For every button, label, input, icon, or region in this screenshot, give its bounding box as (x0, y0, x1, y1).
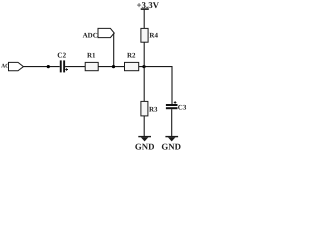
resistor R4 (141, 28, 159, 42)
wire R3 to ground (143, 116, 145, 136)
power +3.3V (137, 0, 160, 10)
ground GND right (161, 137, 181, 152)
capacitor C3 (166, 101, 187, 111)
wire junction down to R3 (143, 67, 145, 102)
svg-text:C2: C2 (57, 50, 66, 59)
wire R2 to corner and down to C3 (139, 67, 172, 104)
svg-text:R4: R4 (149, 32, 158, 40)
svg-text:ADC: ADC (83, 31, 98, 39)
wire R4 to junction (143, 42, 145, 66)
svg-text:R1: R1 (87, 51, 96, 59)
ground GND left (135, 137, 155, 152)
wire power bar to R4 (143, 10, 145, 29)
resistor R2 (125, 51, 139, 70)
svg-text:R2: R2 (127, 51, 136, 59)
wire R1 to R2 (98, 66, 124, 68)
svg-text:C3: C3 (178, 103, 187, 111)
svg-text:GND: GND (135, 142, 155, 152)
wire ADC down to junction (113, 33, 116, 67)
port AC (1, 62, 23, 70)
node junction dot ADC (112, 65, 115, 68)
wire C2 to R1 (65, 66, 85, 68)
node junction dot left (47, 65, 50, 68)
svg-text:AC: AC (1, 63, 9, 69)
svg-text:R3: R3 (149, 106, 158, 114)
wire C3 to ground (171, 109, 173, 136)
capacitor C2 (57, 50, 68, 72)
resistor R3 (141, 101, 158, 116)
port ADC (83, 28, 115, 39)
resistor R1 (85, 51, 98, 70)
wire AC to C2 (23, 66, 60, 68)
svg-text:GND: GND (161, 142, 181, 152)
node junction dot center (142, 65, 145, 68)
